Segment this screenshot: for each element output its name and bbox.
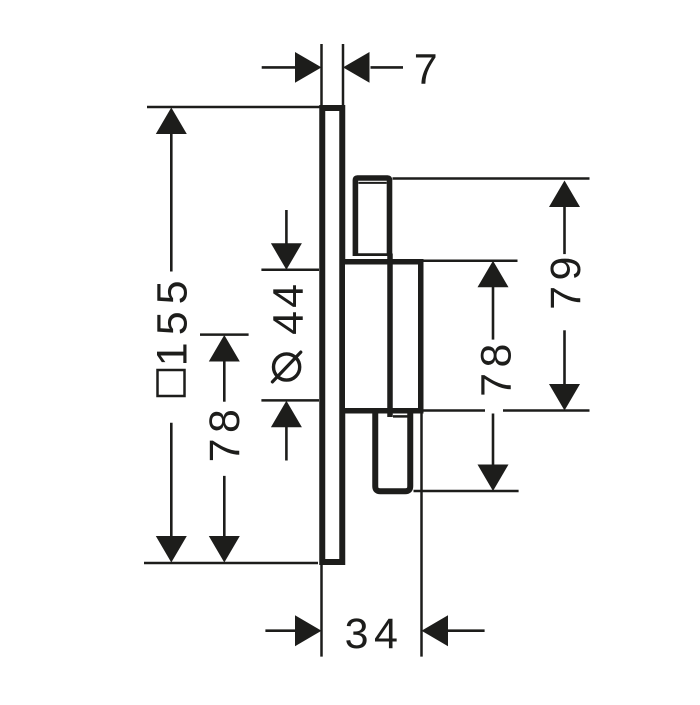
arrow dim7 left [295,52,322,83]
svg-text:7: 7 [414,46,443,94]
arrow dim34 left [295,615,322,646]
arrow dim78R top [478,261,509,288]
arrow dim155 bottom [156,536,187,563]
dim44 upper tail [285,210,288,246]
arrow dim78L top [209,335,240,362]
svg-text:79: 79 [542,251,590,310]
dim78L line lower segment [223,476,226,540]
dim155 top extension line [147,106,322,109]
dim7 left tail [262,66,295,69]
escutcheon block body [342,262,421,411]
bottom handle stem [375,411,410,492]
dim34 right tail [447,629,485,632]
dim78R bottom extension line [414,490,519,493]
dim79 line lower segment [563,330,566,386]
dim78L line upper segment [223,358,226,402]
dim78R line upper segment [492,285,495,340]
top handle bottom cap line [355,253,389,256]
svg-text:78: 78 [201,404,249,463]
wall plate (side view) [322,108,342,562]
dim44 top extension line [261,269,319,272]
arrow dim44 top [271,243,302,269]
dim79 line upper segment [563,205,566,254]
dim7 right tail [371,66,404,69]
svg-text:78: 78 [473,338,521,397]
dim78R top extension line [424,259,518,262]
svg-text:155: 155 [148,273,196,366]
dim34 left tail [265,629,296,632]
arrow dim78R bottom [478,465,509,492]
dim78L top extension line [200,333,249,336]
top handle stem [355,178,389,256]
label square155 square glyph [158,370,185,396]
arrow dim79 top [549,181,580,208]
dim78R line lower segment [492,414,495,467]
label dia44 diameter symbol circle [274,354,300,380]
dim79 bottom extension segment b [503,409,590,412]
dim155 line lower segment [170,423,173,540]
arrow dim155 top [156,108,187,135]
dim155/78 bottom extension line [144,562,318,565]
dim44 bottom extension line [261,399,319,402]
arrow dim34 right [422,615,449,646]
dim79 top extension line [393,177,590,180]
bottom handle notch line [393,415,409,418]
dim34 right extension line [420,414,423,657]
dim7 right extension line [342,44,345,105]
label dia44 diameter symbol slash [272,352,300,382]
arrow dim79 bottom [549,384,580,411]
dim155 line upper segment [170,130,173,272]
svg-text:44: 44 [265,281,313,335]
top handle inner top line [358,182,386,184]
arrow dim44 bottom [271,401,302,428]
dim44 lower tail [285,425,288,461]
dim79 bottom extension segment a [424,409,486,412]
divider line inside block [387,254,393,418]
dim7 left extension line [320,44,323,105]
arrow dim78L bottom [209,536,240,563]
dim34 left extension line [320,565,323,657]
svg-text:34: 34 [345,610,404,658]
arrow dim7 right [343,52,370,83]
